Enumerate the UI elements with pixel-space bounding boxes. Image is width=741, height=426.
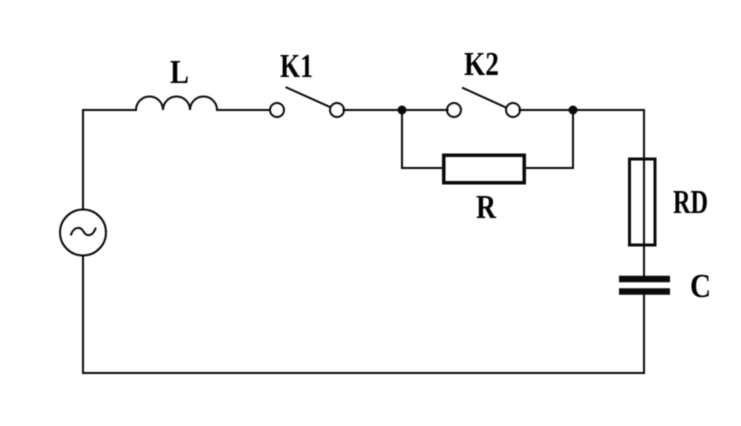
wire inductor to K1 [217,109,270,111]
inductor L [136,97,217,110]
wire AC source to bottom-left corner [82,256,84,373]
svg-text:L: L [170,54,189,91]
wire capacitor to bottom-right corner [83,295,644,374]
svg-text:R: R [476,189,496,226]
wire R to node B [526,110,573,168]
capacitor C [619,279,670,292]
node B junction dot [569,106,578,115]
svg-text:RD: RD [673,184,708,221]
node A junction dot [398,106,407,115]
switch K1 [270,88,344,118]
resistor RD (fuse style) [630,159,656,245]
AC source [60,210,106,256]
svg-text:C: C [690,268,711,305]
wire node A down to R branch [402,110,442,168]
wire top-left horizontal (corner to inductor) [83,110,136,209]
resistor R [444,155,525,183]
wire right vertical through RD [643,110,645,276]
wire K2 to top-right corner [520,109,645,111]
svg-text:K1: K1 [280,48,313,85]
svg-text:K2: K2 [464,46,499,83]
wire K1 to K2 [344,109,448,111]
switch K2 [447,88,520,117]
